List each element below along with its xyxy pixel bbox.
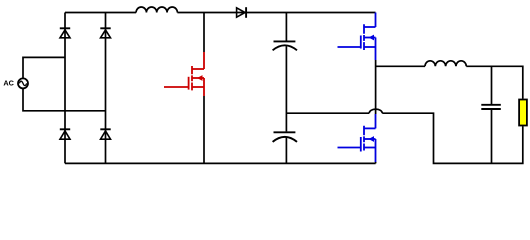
capacitor C1 (bus top, polarized) <box>273 13 297 132</box>
diode D3 (bridge bottom-left) <box>60 129 70 139</box>
resistor R1 (load, yellow) <box>519 100 527 126</box>
transistor Q3 (half-bridge low side, blue) <box>338 114 376 162</box>
wire AC bottom lead <box>23 89 106 111</box>
diode D2 (bridge top-right) <box>100 28 110 38</box>
wire bridge right leg <box>105 13 107 164</box>
transistor Q1 (boost MOSFET, red) <box>164 52 204 96</box>
wire top rail right segment <box>177 12 375 14</box>
inductor L1 (boost) <box>136 7 177 13</box>
wire bus midpoint to return <box>286 112 369 114</box>
diode D1 (bridge top-left) <box>60 28 70 38</box>
wire output top <box>466 66 523 98</box>
wire switch node to output <box>376 65 425 67</box>
wire bottom rail <box>65 162 376 164</box>
svg-text:AC: AC <box>3 78 14 87</box>
capacitor C2 (bus bottom, polarized) <box>273 132 297 163</box>
wire hop over switch node <box>369 109 382 113</box>
wire return right segment <box>382 113 523 163</box>
transistor Q2 (half-bridge high side, blue) <box>338 13 376 61</box>
capacitor C3 (output) <box>481 66 501 163</box>
wire Q3 source to bottom rail <box>375 162 377 163</box>
diode D4 (bridge bottom-right) <box>100 129 110 139</box>
wire Q1 source to bottom rail <box>203 96 205 163</box>
wire top rail left segment <box>65 12 136 14</box>
inductor L2 (output) <box>425 61 466 67</box>
wire switch node vertical <box>375 60 377 114</box>
AC source V1 <box>18 78 28 88</box>
wire bridge left leg <box>64 13 66 164</box>
wire AC top lead <box>23 57 65 78</box>
diode D5 (boost) <box>237 7 247 18</box>
wire Q1 drain feed <box>203 13 205 53</box>
